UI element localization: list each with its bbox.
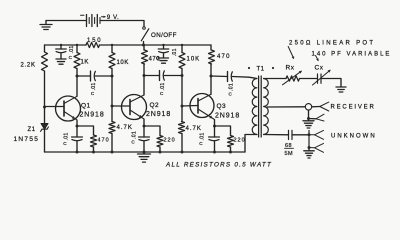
variable capacitor Cx xyxy=(317,74,319,83)
svg-text:2N918: 2N918 xyxy=(146,111,171,118)
leader arrow to Cx xyxy=(316,56,319,61)
wire T1 secondary top xyxy=(264,78,286,80)
battery B1 9V xyxy=(86,15,88,27)
node Q3 base junction top xyxy=(181,74,184,77)
clip (unknown hot) xyxy=(309,134,315,136)
resistor 10K (Q2 bias) xyxy=(111,45,113,53)
clip (receiver hot) xyxy=(320,102,329,111)
wire T1 primary return xyxy=(245,135,257,153)
wire Q2 base node down xyxy=(111,76,113,122)
svg-text:4.7K: 4.7K xyxy=(117,125,133,131)
ground (bypass 1) xyxy=(56,58,66,60)
ground (receiver) xyxy=(308,119,310,121)
node Q1 collector junction xyxy=(76,75,79,78)
capacitor C8 .01 coupling xyxy=(227,72,229,82)
svg-text:220: 220 xyxy=(234,138,246,144)
node phasing dot right xyxy=(272,67,274,69)
svg-text:Z1: Z1 xyxy=(28,127,36,133)
wire Q1 emitter branch xyxy=(77,126,94,135)
connector receiver jack xyxy=(305,104,311,110)
node Q3 collector junction xyxy=(210,75,213,78)
node Q2 collector junction xyxy=(143,74,146,77)
wire Q3 collector to C8 xyxy=(211,75,228,78)
transistor Q1 2N918 xyxy=(56,96,81,121)
svg-text:220: 220 xyxy=(164,138,176,144)
node Q1 base junction xyxy=(43,106,46,109)
ground (unknown) xyxy=(308,148,310,151)
node Q2 emitter junction xyxy=(143,125,146,128)
wire +V rail left segment xyxy=(45,44,87,46)
wire Cx to ground xyxy=(321,79,341,87)
capacitor .01 (Q3 emitter) xyxy=(214,126,216,137)
svg-text:.01: .01 xyxy=(69,45,75,53)
svg-text:.01: .01 xyxy=(132,131,138,139)
svg-text:Rx: Rx xyxy=(286,65,295,72)
svg-text:2N918: 2N918 xyxy=(215,113,240,120)
wire ground rail xyxy=(45,151,246,153)
svg-text:ON/OFF: ON/OFF xyxy=(151,32,177,39)
svg-text:.01: .01 xyxy=(228,83,234,91)
resistor 220 (Q2 emitter) xyxy=(157,136,163,148)
node rail taps xyxy=(60,44,62,46)
node Q3 emitter junction xyxy=(213,125,216,128)
resistor R1 2.2K xyxy=(44,45,46,52)
transformer T1 primary winding xyxy=(252,79,257,135)
resistor 470 (Q3 collector load) xyxy=(210,45,212,50)
svg-text:2N918: 2N918 xyxy=(80,112,105,119)
svg-text:.01: .01 xyxy=(91,82,97,90)
svg-text:1N755: 1N755 xyxy=(14,136,40,143)
node Q2 base tee xyxy=(111,105,114,108)
transistor Q3 2N918 xyxy=(190,94,214,118)
capacitor .01 (Q1 emitter) xyxy=(76,126,78,137)
wire T1 secondary bottom xyxy=(264,134,289,136)
svg-text:T1: T1 xyxy=(257,67,265,73)
ground (main) xyxy=(143,152,145,154)
node phasing dot left xyxy=(248,67,250,69)
wire Q2 collector to C5 xyxy=(144,75,160,77)
svg-text:4.7K: 4.7K xyxy=(186,126,202,132)
clip (unknown ground) xyxy=(309,147,315,149)
capacitor .01 rail bypass 2 xyxy=(163,45,165,49)
resistor 4.7K (Q3 base) xyxy=(179,122,185,134)
capacitor coupling (unknown) xyxy=(288,130,290,139)
capacitor .01 (Q2 emitter) xyxy=(143,126,145,137)
svg-text:Q2: Q2 xyxy=(150,102,159,109)
resistor 1K xyxy=(76,45,78,53)
wire jack to clip xyxy=(312,106,320,108)
capacitor C2 .01 coupling xyxy=(90,71,92,81)
svg-text:1K: 1K xyxy=(81,60,90,66)
ground (bypass 2) xyxy=(159,57,169,59)
wire Q3 emitter branch xyxy=(215,126,231,136)
wire C8 to T1 primary xyxy=(232,77,257,79)
wire shield to clip xyxy=(309,118,317,120)
resistor 470 (Q2 collector load) xyxy=(143,45,145,50)
svg-text:2.2K: 2.2K xyxy=(21,63,36,69)
transformer T1 secondary winding xyxy=(264,79,269,135)
wire jack shield down xyxy=(308,110,310,119)
capacitor C5 .01 coupling xyxy=(159,71,161,81)
zener diode Z1 xyxy=(44,107,46,124)
svg-text:ALL RESISTORS 0.5 WATT: ALL RESISTORS 0.5 WATT xyxy=(165,161,272,168)
wire battery negative xyxy=(46,20,87,22)
wire Rx to Cx xyxy=(300,78,318,80)
connector unknown jack xyxy=(308,131,310,148)
clip (receiver ground) xyxy=(316,114,324,121)
wire T1 secondary tap to receiver jack xyxy=(267,106,305,108)
node unknown jack bottom xyxy=(308,146,311,149)
svg-text:RECEIVER: RECEIVER xyxy=(331,105,376,111)
node unknown jack top xyxy=(308,133,311,136)
svg-text:10K: 10K xyxy=(187,57,201,63)
wire Q3 base node down xyxy=(181,76,183,122)
wire cap to unknown jack xyxy=(292,134,309,136)
wire +V rail right segment xyxy=(100,44,212,46)
wire Q2 emitter branch xyxy=(144,126,160,136)
svg-text:10K: 10K xyxy=(117,60,129,66)
wire C5 to Q3 base node xyxy=(164,75,182,77)
svg-text:250Ω LINEAR POT: 250Ω LINEAR POT xyxy=(289,41,375,47)
resistor 10K (Q3 bias) xyxy=(181,45,183,53)
svg-text:470: 470 xyxy=(217,54,231,60)
svg-text:UNKNOWN: UNKNOWN xyxy=(331,133,377,139)
node rail junctions xyxy=(76,151,79,154)
ground (battery negative) xyxy=(45,21,47,25)
resistor 220 (Q3 emitter) xyxy=(228,136,234,148)
svg-text:150: 150 xyxy=(87,38,102,44)
svg-text:Q1: Q1 xyxy=(81,103,90,110)
resistor 150 (in rail) xyxy=(86,42,100,47)
ground (Cx) xyxy=(336,86,346,88)
capacitor .01 rail bypass 1 xyxy=(60,45,62,49)
node rail battery feed xyxy=(142,44,145,47)
svg-text:140 PF VARIABLE: 140 PF VARIABLE xyxy=(312,51,392,57)
node Q3 base tee xyxy=(181,105,184,108)
wire Q1 collector to C2 xyxy=(77,75,91,77)
label - (battery polarity) xyxy=(81,14,85,16)
transistor Q2 2N918 xyxy=(122,95,147,120)
svg-text:Q3: Q3 xyxy=(217,103,226,110)
leader arrow to Rx xyxy=(288,47,293,59)
node Q2 base junction top xyxy=(111,75,114,78)
svg-text:.01: .01 xyxy=(172,48,178,56)
svg-text:.01: .01 xyxy=(199,132,205,140)
wire battery positive to switch xyxy=(100,21,144,27)
switch S1 ON/OFF xyxy=(143,27,146,30)
svg-text:.01: .01 xyxy=(160,82,166,90)
svg-text:470: 470 xyxy=(98,138,110,144)
variable resistor Rx xyxy=(286,76,300,81)
node receiver shield xyxy=(307,117,310,120)
label +9 V. xyxy=(102,16,106,18)
resistor 470 (Q1 emitter) xyxy=(91,135,97,147)
svg-text:.01: .01 xyxy=(63,132,69,140)
svg-text:5M: 5M xyxy=(285,151,294,157)
transformer T1 core xyxy=(258,76,260,137)
node Q1 emitter junction xyxy=(76,125,79,128)
resistor 4.7K (Q2 base) xyxy=(109,122,115,134)
svg-text:Cx: Cx xyxy=(315,65,324,72)
wire C2 to Q2 base node xyxy=(95,75,112,77)
